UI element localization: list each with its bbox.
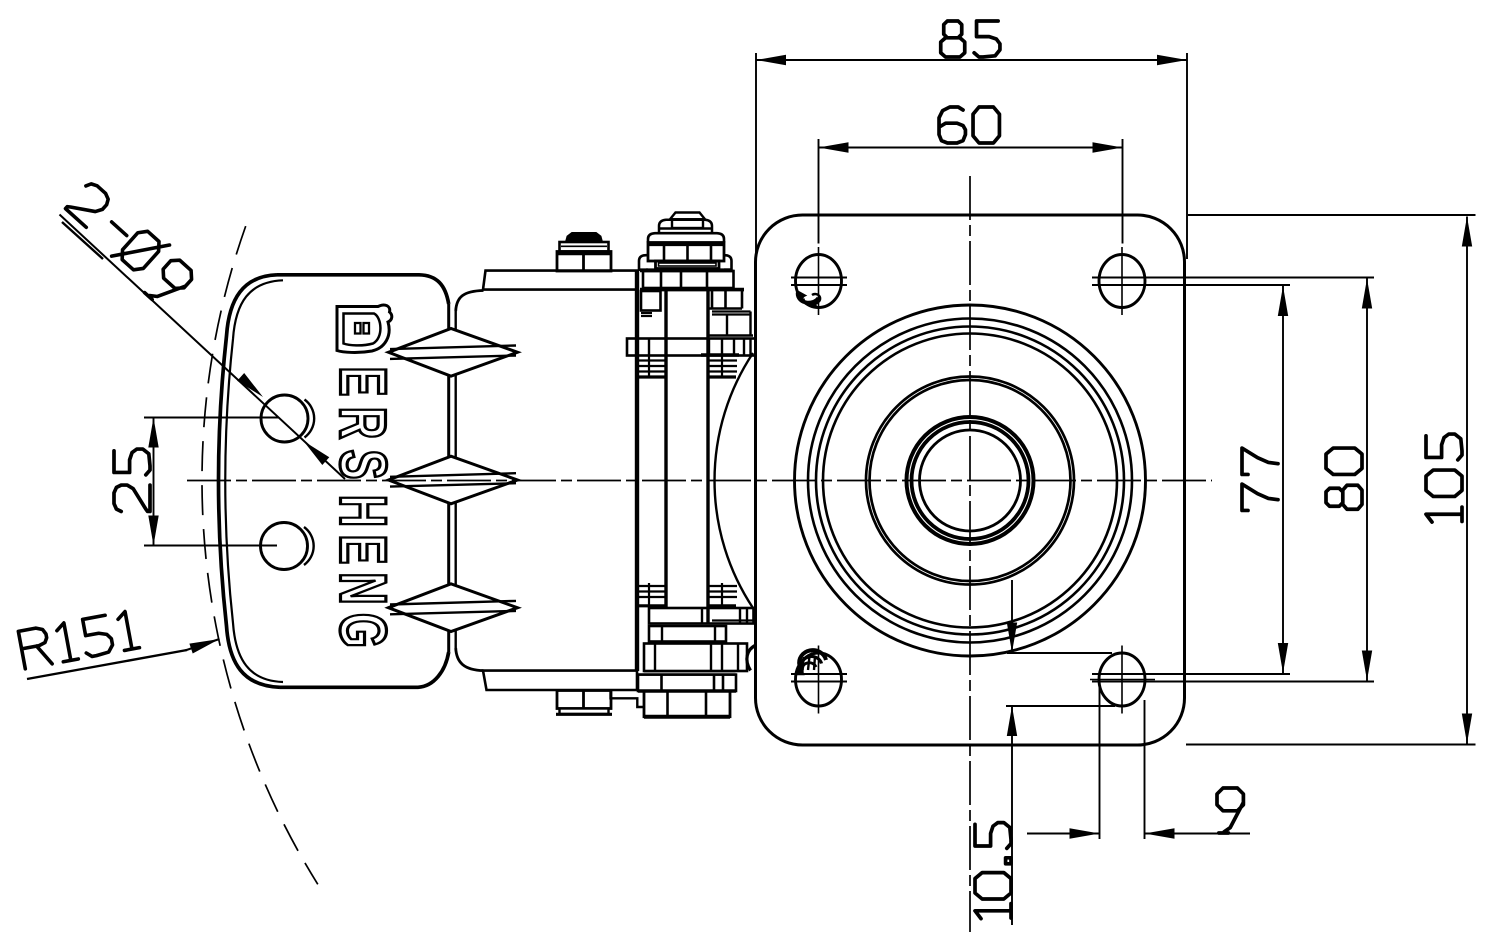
kingpin foot	[644, 691, 730, 717]
wheel arc seen in right view	[715, 353, 753, 608]
text 85	[941, 21, 1000, 57]
ext line 60 left	[818, 139, 820, 244]
wheel hole bottom	[261, 523, 308, 570]
top cove wheel-to-bar	[456, 291, 484, 312]
plate outline	[756, 215, 1185, 745]
dashed arc R151 tread radius	[202, 226, 318, 884]
svg-text:N: N	[327, 572, 401, 604]
wheel sidewall inner line	[225, 280, 283, 682]
mounting hole top-right	[1099, 255, 1145, 308]
ext line 85 right	[1186, 53, 1188, 259]
tread diamond 2	[389, 456, 518, 504]
dim line 105	[1466, 217, 1468, 744]
bearing races bottom	[637, 585, 666, 587]
swivel raceway circles	[795, 305, 1146, 656]
kingpin cap tier2	[659, 220, 712, 233]
dim line 25	[153, 418, 155, 546]
text 2-O9	[59, 177, 199, 310]
vertical centerline plate	[969, 176, 971, 932]
kingpin flange ears	[639, 255, 648, 270]
rivet swirl top-left hole	[798, 292, 819, 303]
leader underline	[62, 222, 103, 259]
kingpin hex nut	[648, 243, 724, 262]
rivet swirl bottom-left hole	[799, 650, 826, 665]
ext line 10.5 top	[1007, 652, 1112, 654]
fork leg outer left	[635, 271, 639, 671]
svg-text:E: E	[327, 535, 401, 565]
bottom cove wheel-to-bar	[456, 648, 484, 671]
mounting hole top-left	[796, 255, 842, 308]
head top box	[643, 271, 734, 288]
text 77	[1242, 448, 1278, 510]
text 60	[939, 107, 999, 143]
dim line 85	[756, 59, 1187, 61]
ext line 105 bottom	[1186, 744, 1476, 746]
foot step left	[611, 691, 645, 707]
wheel tread edge double lines	[447, 304, 450, 330]
dim line 60	[819, 147, 1123, 149]
dim line 77	[1282, 286, 1284, 673]
leader line 2-O9	[60, 215, 346, 480]
wheel outline	[219, 275, 449, 688]
text 25	[114, 449, 150, 511]
tread diamond 1	[389, 329, 518, 377]
head thick band	[640, 288, 744, 292]
bottom mid row	[649, 626, 726, 642]
ext line 25 bottom	[144, 545, 277, 547]
text 105	[1426, 434, 1462, 522]
bottom flange row	[649, 608, 754, 624]
ext line 85 left	[755, 53, 757, 262]
svg-text:E: E	[327, 367, 401, 397]
bottom wide box	[638, 675, 736, 691]
small lock nut top	[566, 233, 602, 242]
svg-text:R: R	[327, 407, 401, 439]
hole ref/ext lines top-right	[1092, 277, 1374, 279]
horizontal centerline	[187, 480, 1212, 482]
bottom double band	[644, 670, 736, 672]
dim line 80	[1366, 279, 1368, 681]
fork leg inner right	[706, 291, 709, 624]
tread diamond 3	[389, 584, 518, 632]
hole ref lines bottom-left	[791, 673, 847, 675]
head left cell	[641, 291, 661, 311]
text 80	[1326, 448, 1362, 509]
small lock nut bottom	[557, 691, 611, 709]
kingpin cap top	[670, 213, 705, 220]
top plate bar	[483, 271, 637, 290]
small arc bump	[747, 645, 756, 671]
fork leg inner left	[664, 291, 667, 608]
mounting hole bottom-left	[796, 653, 842, 706]
bearing races top	[637, 359, 666, 361]
bottom lower row	[644, 644, 747, 672]
ext line 9 right	[1144, 700, 1146, 839]
DERSHENG logo D (shield)	[337, 305, 392, 352]
head lower flange	[627, 339, 756, 356]
hole ref/ext lines bottom-right	[1092, 673, 1290, 675]
kingpin washer plate	[656, 261, 720, 269]
svg-text:H: H	[327, 495, 401, 527]
ext line 105 top	[1188, 214, 1476, 216]
head right stack	[711, 291, 714, 309]
mounting hole bottom-right	[1099, 653, 1145, 706]
kingpin collar	[648, 233, 724, 242]
text 9	[1217, 788, 1243, 833]
ext line 25 top	[144, 417, 279, 419]
text R151	[18, 610, 139, 669]
ext line 9 left	[1099, 686, 1101, 839]
svg-text:S: S	[327, 450, 401, 480]
bottom plate bar	[483, 671, 637, 690]
ext line 10.5 bottom	[1006, 705, 1115, 707]
ext line 60 right	[1122, 139, 1124, 244]
hole ref lines top-left	[791, 277, 847, 279]
text 10.5	[975, 823, 1011, 919]
wheel hole top (2-x09)	[261, 395, 308, 442]
svg-text:G: G	[327, 613, 401, 648]
R151 underline	[27, 650, 187, 679]
